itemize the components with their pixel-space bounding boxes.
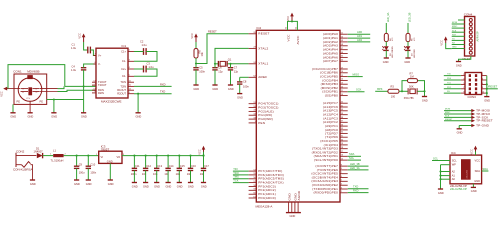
svg-text:BPK: BPK [377, 87, 382, 91]
wire SCL to IC4 [432, 160, 450, 162]
wires JTAG stubs TDI TDO TMS TCK [233, 170, 249, 172]
svg-text:C13: C13 [157, 164, 162, 168]
svg-text:1N4007: 1N4007 [34, 149, 44, 153]
wire green loop over CON1 [8, 65, 65, 89]
svg-text:RXD: RXD [353, 189, 359, 193]
capacitor C2 [140, 40, 147, 55]
capacitor C14 [164, 155, 174, 183]
ground under D3 [404, 58, 410, 64]
wire TXD net [348, 188, 369, 190]
ground under D2 [383, 58, 389, 64]
svg-text:C5: C5 [199, 66, 203, 70]
svg-text:470: 470 [392, 37, 394, 41]
svg-text:24LC256-I/P: 24LC256-I/P [450, 187, 467, 191]
svg-text:(RXD0/PDI)PE0: (RXD0/PDI)PE0 [313, 191, 338, 195]
wire IC1 right ground drop [137, 94, 139, 113]
svg-text:GND: GND [188, 184, 194, 188]
svg-text:GND: GND [81, 115, 87, 119]
svg-text:100n: 100n [243, 85, 249, 89]
svg-text:VCC: VCC [286, 16, 290, 22]
svg-text:MISO: MISO [445, 112, 451, 114]
IC2 right pins: PA group [340, 33, 348, 35]
svg-text:VCC: VCC [440, 40, 444, 46]
svg-text:R2OUT: R2OUT [117, 92, 126, 96]
svg-text:C2+: C2+ [121, 67, 126, 71]
svg-text:C2-: C2- [122, 74, 126, 78]
svg-text:C10: C10 [90, 162, 95, 166]
wire C3 loop pin4 to pin5 [134, 68, 144, 70]
svg-text:VCC: VCC [78, 33, 82, 39]
resistor R5 [406, 33, 416, 41]
diode D1 1N4007 [34, 147, 44, 159]
svg-text:C1-: C1- [122, 59, 126, 63]
junction at GND drop [83, 85, 85, 87]
svg-text:24LC256: 24LC256 [466, 169, 468, 178]
ground under CON1 left [10, 113, 16, 119]
ground under IC3 [108, 180, 114, 186]
ground under C5 [193, 85, 199, 91]
svg-text:T2OUT: T2OUT [98, 83, 107, 87]
svg-text:AD1: AD1 [357, 34, 363, 38]
svg-text:(SCL/INT0)PD0: (SCL/INT0)PD0 [314, 158, 338, 162]
svg-text:GND: GND [30, 182, 36, 186]
svg-text:SCL: SCL [452, 158, 458, 162]
svg-text:GND: GND [404, 60, 410, 64]
svg-text:GND: GND [166, 184, 172, 188]
svg-text:A2: A2 [452, 169, 456, 173]
ground under C11 [132, 183, 138, 189]
svg-text:GND: GND [484, 98, 490, 102]
ground under C16 [188, 183, 194, 189]
svg-text:LED RED: LED RED [414, 49, 416, 58]
wire LED_3A stub [385, 23, 387, 33]
svg-text:GND: GND [422, 98, 428, 102]
svg-text:AD0: AD0 [357, 30, 363, 34]
svg-text:GND: GND [143, 184, 149, 188]
svg-text:XTAL1: XTAL1 [258, 62, 268, 66]
svg-text:MOSI: MOSI [445, 109, 451, 111]
wire CON1 lower pin to MAX232 [58, 90, 97, 91]
wire BPK net [375, 90, 388, 92]
ground under C10 [86, 180, 92, 186]
svg-text:/RESET: /RESET [445, 119, 453, 121]
svg-text:RXD: RXD [160, 82, 166, 86]
wire R6 to junction [195, 58, 197, 64]
svg-text:SCK: SCK [445, 116, 450, 118]
svg-text:GND: GND [383, 60, 389, 64]
svg-text:LED GREEN: LED GREEN [392, 46, 394, 58]
wire CON1 pin to bus [58, 86, 65, 88]
svg-text:SCK: SCK [356, 88, 362, 92]
svg-text:1.0u: 1.0u [149, 65, 155, 69]
CON3 left pin stubs and wires [461, 75, 465, 77]
svg-text:CON2: CON2 [16, 150, 25, 154]
svg-text:VO: VO [116, 155, 120, 159]
wire C4 to ground rail [83, 70, 85, 113]
svg-text:C3: C3 [147, 61, 151, 65]
svg-text:AD2: AD2 [357, 38, 363, 42]
svg-text:MDV6SB: MDV6SB [27, 70, 39, 74]
svg-text:MEGA128-A: MEGA128-A [256, 204, 273, 208]
svg-text:GND: GND [177, 184, 183, 188]
svg-text:C12: C12 [146, 164, 151, 168]
wire left corner drop [12, 104, 14, 112]
capacitor C15 [176, 155, 186, 183]
svg-text:GND: GND [438, 191, 444, 195]
svg-text:IC2: IC2 [257, 26, 262, 30]
junction crystal right [229, 63, 231, 65]
svg-text:50K: 50K [409, 84, 414, 88]
connector CON3 [465, 73, 482, 100]
svg-text:SCL: SCL [349, 156, 355, 160]
svg-text:GND: GND [108, 182, 114, 186]
wire SDA from IC4 [482, 170, 489, 172]
wire /RESET net [487, 88, 498, 90]
wire L1 to IC3 input [64, 155, 99, 157]
svg-text:7805T: 7805T [101, 147, 110, 151]
svg-text:VCC: VCC [0, 91, 4, 97]
svg-text:TXD: TXD [160, 90, 165, 94]
wire VCC to R6 [195, 42, 197, 49]
ground under IC2 [286, 213, 301, 219]
capacitor C3 [144, 61, 155, 72]
svg-text:TP-RESET: TP-RESET [476, 119, 493, 123]
ground under C6 [212, 85, 218, 91]
wire IC3 output to VCC rail [122, 155, 204, 157]
wire LED_3A net [348, 169, 369, 171]
svg-text:C16: C16 [191, 164, 196, 168]
ground under CON2 [30, 180, 36, 186]
IC1 left pin labels [98, 53, 107, 94]
svg-text:C11: C11 [135, 164, 140, 168]
svg-text:LED_3B: LED_3B [408, 12, 412, 22]
ground under CON1 right [51, 113, 57, 119]
svg-text:GND: GND [471, 189, 477, 193]
wire SDA net [348, 155, 361, 157]
ground under CON4 [456, 62, 462, 68]
IC2 bottom pin stubs to ground [289, 202, 299, 213]
wire horizontal to MAX232 left pins [65, 85, 96, 87]
svg-text:VCC: VCC [286, 34, 290, 42]
svg-text:GND: GND [107, 159, 113, 163]
wire LED_3B net [348, 165, 369, 167]
svg-text:GND: GND [474, 179, 480, 183]
svg-text:TDI: TDI [233, 167, 237, 171]
test point TP-MISO [444, 113, 472, 115]
svg-text:PEN: PEN [258, 121, 265, 125]
wire XTAL2 [215, 48, 249, 63]
svg-text:CON4: CON4 [464, 13, 473, 17]
wire C4 to pin V- [84, 64, 96, 68]
capacitor C8 [237, 80, 249, 89]
svg-text:GND: GND [457, 131, 463, 135]
IC1 right pin labels [117, 49, 126, 95]
junction crystal left [214, 63, 216, 65]
wire IC4 ground [472, 184, 474, 188]
wires IC4 address pins to ground [441, 164, 451, 166]
svg-text:TP-GND: TP-GND [476, 124, 490, 128]
capacitor C16 [187, 155, 197, 183]
capacitor C10 [86, 156, 97, 180]
svg-text:GND: GND [10, 115, 16, 119]
svg-text:GND: GND [154, 184, 160, 188]
wire CON1 shield to ground run [47, 99, 84, 101]
svg-text:1.0u: 1.0u [142, 43, 148, 47]
svg-text:Q1: Q1 [228, 57, 232, 61]
svg-text:AGND: AGND [297, 190, 301, 200]
svg-text:2›: 2› [36, 92, 38, 94]
svg-text:100: 100 [391, 94, 396, 98]
IC2 left pins: PG group and PEN [249, 103, 257, 105]
crystal Q1 [215, 57, 232, 66]
svg-text:T1IN: T1IN [120, 80, 126, 84]
svg-text:AVCC: AVCC [296, 35, 300, 45]
wire net RXD from IC1 [134, 85, 172, 87]
ground under C14 [166, 183, 172, 189]
op-amp IC1 MAX232 box [96, 48, 128, 98]
svg-text:SDA: SDA [475, 169, 481, 173]
junction C9 [76, 155, 78, 157]
supply VCC at IC4 [469, 146, 477, 156]
svg-text:C14: C14 [169, 164, 174, 168]
test point TP-MOSI [444, 110, 472, 112]
capacitor C11 [131, 155, 140, 183]
svg-text:R3: R3 [391, 84, 395, 88]
svg-text:VCC: VCC [469, 149, 473, 155]
svg-text:LED_3A: LED_3A [350, 166, 360, 170]
svg-text:100n: 100n [199, 70, 205, 74]
crystal Q2 K50-786 [404, 84, 417, 100]
IC1 pin numbers right [129, 50, 132, 94]
resistor R4 [384, 33, 394, 41]
wire SCL net [348, 159, 361, 161]
svg-text:TMS: TMS [233, 175, 239, 179]
test point TP-GND [459, 125, 471, 127]
svg-text:(AD7)PA7: (AD7)PA7 [323, 59, 338, 63]
junction on GND wire [137, 93, 139, 95]
svg-text:TCK: TCK [233, 179, 238, 183]
capacitor C5 [193, 66, 205, 74]
resistor R6 [194, 49, 204, 59]
wire IC3 ground drop [109, 163, 111, 180]
supply VCC above R6 [190, 33, 198, 42]
svg-text:VCC: VCC [190, 33, 194, 39]
svg-text:IC1: IC1 [122, 44, 127, 48]
IC2 left pins: RESET XTAL2 XTAL1 AREF [249, 33, 257, 35]
svg-text:GND: GND [136, 115, 142, 119]
capacitor C4 [71, 64, 86, 72]
svg-text:100n: 100n [131, 172, 137, 176]
connector CON4 ISP header [463, 13, 480, 61]
ground at TP-GND [458, 126, 460, 129]
inductor L1 [51, 149, 67, 163]
IC2 left pins: PF group (ADC/JTAG) [249, 170, 257, 172]
svg-text:1.0u: 1.0u [71, 46, 77, 50]
svg-text:AREF: AREF [258, 75, 267, 79]
svg-text:C9: C9 [79, 162, 83, 166]
svg-text:12p: 12p [234, 70, 239, 74]
memory IC4 box [450, 151, 482, 191]
wire LED_3B stub [407, 23, 409, 33]
wire shield drop [53, 100, 55, 113]
svg-text:R2IN: R2IN [98, 91, 104, 95]
svg-text:100n: 100n [90, 170, 96, 174]
wire RXD net [348, 192, 369, 194]
supply VCC at rail end [197, 146, 205, 156]
wire MISO net [348, 76, 363, 78]
svg-text:GND: GND [228, 87, 234, 91]
svg-text:470: 470 [414, 37, 416, 41]
wire XTAL1 [231, 63, 249, 65]
wires CON4 left pins [452, 23, 465, 25]
svg-text:V-: V- [98, 62, 101, 66]
capacitor C12 [142, 155, 152, 183]
ground under C17 [201, 183, 207, 189]
svg-text:XTAL2: XTAL2 [258, 46, 268, 50]
svg-text:L1: L1 [53, 149, 56, 153]
svg-text:K50-786: K50-786 [404, 96, 414, 100]
svg-text:TXD: TXD [353, 185, 358, 189]
svg-text:GND: GND [237, 95, 243, 99]
svg-text:CON3: CON3 [468, 95, 477, 99]
svg-text:100u: 100u [79, 170, 85, 174]
wire CON4 ground [459, 56, 471, 62]
regulator IC3 7805 [96, 144, 125, 163]
connector CON2 power jack [13, 150, 36, 180]
svg-text:SCL: SCL [433, 156, 439, 160]
svg-text:IC4: IC4 [451, 151, 456, 155]
svg-text:LED_3A: LED_3A [386, 12, 390, 22]
svg-text:GND: GND [28, 115, 34, 119]
capacitor C9 [74, 156, 85, 180]
svg-text:GND: GND [290, 214, 296, 218]
LED D3 [404, 46, 416, 58]
ground under IC1 right [136, 113, 142, 119]
svg-text:C6: C6 [218, 66, 222, 70]
svg-text:RESET: RESET [208, 30, 217, 34]
svg-text:AVR-ISP: AVR-ISP [476, 31, 480, 41]
capacitor C17 [200, 155, 210, 183]
svg-text:C4: C4 [72, 64, 76, 68]
svg-text:/RESET: /RESET [488, 85, 498, 89]
LED D2 [382, 46, 394, 58]
svg-text:TL.5100uH: TL.5100uH [51, 159, 64, 163]
wires PA0 PA1 PA2 nets [348, 33, 371, 35]
svg-text:GND: GND [74, 182, 80, 186]
ground under C15 [177, 183, 183, 189]
svg-text:VI: VI [101, 155, 104, 159]
ground under beeper [422, 97, 428, 103]
wire CON3 right bus [486, 76, 488, 97]
ground under C4 [81, 113, 87, 119]
svg-text:VCC: VCC [475, 158, 481, 162]
svg-text:T2IN: T2IN [120, 84, 126, 88]
supply VCC above IC2 [286, 13, 294, 22]
svg-text:MISO: MISO [353, 73, 360, 77]
svg-text:C7: C7 [234, 66, 238, 70]
wire R3 to node [399, 90, 408, 92]
svg-text:LED_3B: LED_3B [350, 162, 360, 166]
wire VCC to IC2 power pins [288, 21, 298, 30]
wire AREF to C8 [240, 76, 249, 78]
svg-text:(SS)PB0: (SS)PB0 [325, 94, 338, 98]
svg-text:‹5: ‹5 [22, 92, 25, 94]
ground under C12 [143, 183, 149, 189]
IC2 right pins: PE group [340, 165, 348, 167]
svg-text:GND: GND [452, 47, 457, 49]
svg-text:MISO: MISO [452, 26, 458, 28]
svg-text:TDO: TDO [233, 171, 238, 175]
CON3 right pin stubs [482, 75, 487, 77]
svg-text:CON-KLBRSA: CON-KLBRSA [13, 168, 33, 172]
IC1 pin stubs left [92, 56, 96, 93]
test point TP-RESET [444, 120, 472, 122]
ground under IC4 address pins [438, 189, 444, 195]
ground under IC4 [471, 187, 477, 193]
svg-text:C17: C17 [204, 164, 209, 168]
wire beeper node to ground [424, 91, 426, 96]
svg-text:V+: V+ [98, 53, 102, 57]
svg-text:C2: C2 [140, 40, 144, 44]
svg-text:MAX232ECWE: MAX232ECWE [101, 100, 122, 104]
svg-text:WP: WP [452, 163, 456, 167]
pin lines right of CON1 [40, 88, 58, 90]
svg-text:‹2 5›: ‹2 5› [26, 98, 31, 100]
IC2 right pins: PB group [340, 68, 348, 70]
svg-text:GND: GND [201, 184, 207, 188]
supply VCC at CON1 left [0, 87, 7, 97]
resistor R7 parallel branch [402, 81, 408, 92]
svg-text:1.0u: 1.0u [71, 68, 77, 72]
junction C10 [87, 155, 89, 157]
capacitor C6 [212, 66, 223, 74]
IC2 right pins: PD group [340, 132, 348, 134]
svg-text:1M: 1M [410, 75, 414, 79]
svg-text:A0: A0 [452, 177, 456, 181]
svg-text:GND: GND [287, 192, 291, 200]
svg-text:GND: GND [86, 182, 92, 186]
pin line bottom of CON1 [29, 101, 31, 113]
supply VCC at CON4 [440, 36, 448, 45]
IC1 pin numbers left [93, 54, 96, 93]
svg-text:10k: 10k [200, 52, 204, 57]
svg-text:C8: C8 [243, 80, 247, 84]
svg-text:12p: 12p [218, 70, 223, 74]
svg-text:GND: GND [132, 184, 138, 188]
svg-text:GND: GND [212, 87, 218, 91]
svg-text:PE: PE [40, 99, 44, 103]
ground under CON1 center [28, 113, 34, 119]
ground under CON3 [484, 97, 490, 103]
svg-text:PF0(ADC0): PF0(ADC0) [258, 196, 276, 200]
svg-text:A1: A1 [452, 174, 456, 178]
wire C1 to pin V+ [90, 50, 96, 56]
capacitor C13 [153, 155, 163, 183]
svg-text:GND: GND [456, 63, 462, 67]
svg-text:GND: GND [193, 87, 199, 91]
wire SCK net [348, 91, 365, 93]
wire reset node to C5 and C5 to ground [195, 64, 197, 68]
svg-text:C15: C15 [180, 164, 185, 168]
junction reset node [195, 62, 197, 64]
pin line left of CON1 [7, 88, 20, 90]
svg-text:MOSI: MOSI [452, 22, 458, 24]
wire D1 to L1 [43, 155, 54, 157]
wire VCC to C1 [84, 42, 88, 50]
connector CON1 outline [14, 74, 47, 104]
wire C2 loop pin1 to pin3 [134, 51, 144, 53]
svg-text:C1+: C1+ [121, 49, 126, 53]
